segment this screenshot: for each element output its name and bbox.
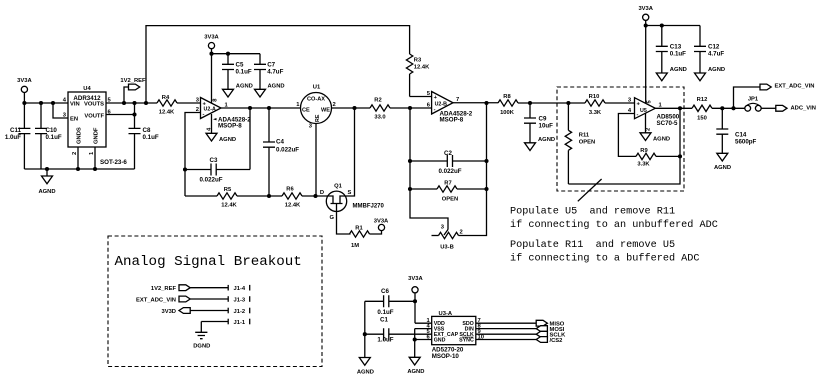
wire C6 to C1 vertical bbox=[364, 301, 366, 334]
node /CS2 flag bbox=[536, 337, 562, 344]
svg-text:ADC_VIN: ADC_VIN bbox=[791, 105, 816, 111]
ground DGND bbox=[193, 322, 210, 350]
svg-text:8: 8 bbox=[212, 98, 218, 102]
wire R6 to Q1 drain bbox=[302, 195, 328, 197]
wire to AGND (C1/C6) bbox=[364, 334, 366, 357]
svg-text:OPEN: OPEN bbox=[442, 197, 458, 203]
junction R7/C2 right bbox=[485, 160, 488, 163]
svg-text:CE: CE bbox=[302, 108, 310, 114]
wire top bus to R3 bbox=[146, 26, 410, 103]
svg-text:VOUTF: VOUTF bbox=[84, 114, 104, 120]
note text populate U5 bbox=[510, 206, 718, 265]
node SCLK flag bbox=[536, 331, 566, 338]
ground AGND (U5) bbox=[640, 133, 670, 143]
svg-text:AGND: AGND bbox=[407, 369, 424, 375]
svg-text:R1: R1 bbox=[355, 226, 363, 232]
node ADC_VIN flag bbox=[776, 105, 816, 111]
svg-text:VIN: VIN bbox=[70, 102, 80, 108]
svg-text:C8: C8 bbox=[143, 127, 151, 134]
wire SCLK bbox=[476, 333, 536, 335]
capacitor C14 bbox=[716, 108, 756, 153]
junction U1 RE drop bbox=[314, 195, 317, 198]
svg-text:GNDS: GNDS bbox=[77, 127, 83, 144]
wire R3 to U2-B pin5 bbox=[410, 96, 432, 98]
svg-text:RE: RE bbox=[315, 114, 321, 122]
power 3V3A (Q1 gate) bbox=[374, 219, 389, 231]
wire U2-A output bbox=[221, 107, 301, 109]
svg-text:2: 2 bbox=[460, 230, 463, 236]
svg-text:G: G bbox=[329, 215, 334, 221]
wire U5 pin4 feedback bbox=[618, 114, 636, 157]
junction EXT branch tap bbox=[732, 107, 735, 110]
op-amp U5 AD8500 bbox=[628, 98, 680, 131]
junction ground row dots bbox=[77, 168, 80, 171]
svg-text:R3: R3 bbox=[414, 58, 422, 64]
leader line to note bbox=[578, 179, 602, 201]
svg-text:J1-1: J1-1 bbox=[234, 320, 246, 326]
ground AGND (C9) bbox=[525, 137, 556, 151]
resistor R5 bbox=[185, 187, 238, 209]
wire net 3V3A VIN row bbox=[24, 102, 68, 104]
svg-text:AGND: AGND bbox=[268, 84, 285, 90]
wire supply cap row bbox=[646, 25, 700, 27]
junction C8 tap bbox=[133, 102, 136, 105]
junction C6 tap bbox=[414, 300, 417, 303]
wire JP1 to ADC_VIN bbox=[761, 107, 776, 109]
svg-text:R11: R11 bbox=[579, 133, 590, 139]
capacitor C3 bbox=[185, 157, 250, 184]
sensor U1 CO-AX bbox=[296, 85, 335, 130]
junction C4 top bbox=[268, 107, 271, 110]
svg-text:5: 5 bbox=[647, 100, 653, 104]
wire GNDS pin bbox=[77, 147, 79, 169]
junction C14 tap bbox=[721, 107, 724, 110]
svg-text:C14: C14 bbox=[735, 132, 747, 139]
capacitor C2 bbox=[410, 150, 487, 175]
svg-text:12.4K: 12.4K bbox=[285, 203, 301, 209]
junction C1 left bbox=[363, 333, 366, 336]
power 3V3A (U5 supply) bbox=[638, 6, 653, 103]
svg-text:-: - bbox=[434, 107, 436, 113]
op-amp U2-A ADA4528-2 bbox=[196, 98, 251, 132]
junction C2 left / R7 left bbox=[409, 160, 412, 163]
wire C3 to output node bbox=[249, 108, 251, 170]
svg-text:U2-A: U2-A bbox=[204, 107, 217, 113]
svg-text:C10: C10 bbox=[46, 127, 58, 134]
svg-text:AGND: AGND bbox=[670, 67, 687, 73]
svg-text:Q1: Q1 bbox=[334, 184, 343, 190]
junction output/feedback bbox=[485, 102, 488, 105]
resistor R10 bbox=[568, 94, 634, 116]
wire feedback left vertical bbox=[410, 108, 448, 230]
svg-text:3V3A: 3V3A bbox=[408, 276, 423, 282]
wire SYNC to /CS2 bbox=[476, 339, 536, 341]
svg-text:R10: R10 bbox=[589, 94, 600, 100]
ground AGND (C14) bbox=[714, 153, 731, 171]
wire U2-A pin2 feedback bbox=[185, 113, 201, 197]
svg-text:2: 2 bbox=[72, 152, 78, 155]
wire VSS/GND to AGND bbox=[414, 329, 416, 358]
junction C10 tap bbox=[40, 102, 43, 105]
svg-text:12.4K: 12.4K bbox=[159, 110, 175, 116]
svg-text:1M: 1M bbox=[351, 243, 359, 249]
wire R1 to 3V3A bbox=[370, 231, 382, 234]
svg-text:1.0uF: 1.0uF bbox=[377, 336, 393, 343]
wire R12 to JP1 bbox=[712, 107, 745, 109]
svg-text:3.3K: 3.3K bbox=[589, 110, 602, 116]
svg-text:0.1uF: 0.1uF bbox=[377, 309, 393, 316]
svg-text:3V3D: 3V3D bbox=[161, 309, 176, 315]
resistor R1 bbox=[350, 226, 370, 250]
svg-text:2: 2 bbox=[646, 128, 652, 131]
resistor R3 bbox=[406, 54, 430, 97]
capacitor C13 bbox=[656, 26, 686, 74]
svg-text:3V3A: 3V3A bbox=[638, 6, 653, 12]
junction Q1 source tap bbox=[353, 107, 356, 110]
svg-text:33.0: 33.0 bbox=[374, 115, 385, 121]
svg-text:0.1uF: 0.1uF bbox=[236, 69, 252, 76]
svg-text:AGND: AGND bbox=[357, 370, 374, 376]
junction U2-B pin6 feedback tap bbox=[409, 107, 412, 110]
junction C3 left bbox=[184, 168, 187, 171]
svg-text:GNDF: GNDF bbox=[94, 127, 100, 144]
svg-text:Populate R11 and remove U5: Populate R11 and remove U5 bbox=[510, 239, 675, 251]
svg-text:C1: C1 bbox=[380, 317, 388, 324]
svg-text:U3-A: U3-A bbox=[439, 311, 453, 317]
node MISO flag bbox=[536, 320, 565, 327]
junction EN tap bbox=[52, 102, 55, 105]
resistor R11 bbox=[565, 103, 595, 184]
capacitor C8 bbox=[129, 103, 159, 169]
junction output/bypass bbox=[679, 107, 682, 110]
wire U1 RE pin down bbox=[315, 124, 317, 197]
ground AGND (C13) bbox=[656, 67, 687, 81]
svg-text:10uF: 10uF bbox=[539, 123, 554, 130]
wire U2-A gnd pin bbox=[211, 114, 213, 133]
wire R11 bypass bottom bbox=[568, 108, 680, 184]
junction supply caps row bbox=[644, 24, 647, 27]
svg-text:3V3A: 3V3A bbox=[17, 78, 32, 84]
ground AGND (C1) bbox=[357, 358, 374, 376]
svg-text:AGND: AGND bbox=[38, 189, 55, 195]
ground AGND (C12) bbox=[695, 67, 726, 81]
svg-text:R6: R6 bbox=[286, 187, 294, 193]
wire U5 gnd pin bbox=[645, 113, 647, 133]
resistor R12 bbox=[692, 97, 712, 122]
svg-text:MMBFJ270: MMBFJ270 bbox=[353, 204, 385, 210]
svg-text:S: S bbox=[348, 190, 352, 196]
svg-text:AGND: AGND bbox=[708, 67, 725, 73]
power 3V3A (U3 supply) bbox=[408, 276, 423, 323]
resistor R9 bbox=[636, 148, 680, 168]
node 1V2_REF flag bbox=[120, 78, 146, 103]
junction 1V2_REF tap bbox=[123, 102, 126, 105]
wire R4 to U2-A pin3 bbox=[177, 102, 201, 104]
svg-text:0.022uF: 0.022uF bbox=[199, 177, 222, 184]
svg-text:J1-2: J1-2 bbox=[234, 309, 246, 315]
capacitor C11 bbox=[5, 103, 31, 169]
capacitor C5 bbox=[222, 54, 252, 90]
svg-text:EXT_ADC_VIN: EXT_ADC_VIN bbox=[775, 84, 815, 90]
svg-text:R7: R7 bbox=[444, 181, 451, 187]
IC U3-A AD5270-20 bbox=[426, 311, 483, 360]
node 1V2_REF row bbox=[151, 285, 250, 292]
wire DIN to MOSI bbox=[476, 328, 536, 330]
svg-text:C5: C5 bbox=[236, 62, 244, 69]
IC U4 ADR3412 bbox=[63, 86, 128, 166]
svg-text:MSOP-8: MSOP-8 bbox=[218, 122, 242, 129]
wire U2-B output bbox=[453, 102, 498, 104]
capacitor C12 bbox=[694, 26, 724, 74]
svg-text:-: - bbox=[637, 112, 639, 118]
node 3V3D row bbox=[161, 308, 249, 315]
svg-text:AGND: AGND bbox=[236, 84, 253, 90]
svg-text:CO-AX: CO-AX bbox=[307, 97, 325, 103]
svg-text:1: 1 bbox=[89, 151, 95, 155]
svg-text:1: 1 bbox=[296, 102, 300, 108]
potentiometer U3-B bbox=[432, 225, 463, 251]
wire GND pin bbox=[415, 339, 432, 341]
svg-text:100K: 100K bbox=[500, 110, 515, 116]
svg-text:DGND: DGND bbox=[193, 344, 210, 350]
svg-text:1: 1 bbox=[659, 103, 663, 109]
svg-text:C7: C7 bbox=[267, 62, 275, 69]
svg-text:3: 3 bbox=[441, 225, 445, 231]
capacitor C6 bbox=[365, 288, 415, 316]
svg-text:AGND: AGND bbox=[653, 137, 670, 143]
svg-text:2: 2 bbox=[333, 102, 336, 108]
dashed box analog signal breakout bbox=[108, 236, 322, 367]
junction GND row bbox=[413, 338, 416, 341]
capacitor C4 bbox=[263, 108, 299, 196]
wire EXT_ADC_VIN branch bbox=[734, 87, 761, 108]
capacitor C9 bbox=[524, 103, 553, 143]
resistor R8 bbox=[498, 94, 518, 116]
svg-text:4.7uF: 4.7uF bbox=[708, 51, 724, 58]
svg-text:J1-3: J1-3 bbox=[234, 297, 246, 303]
junction R9 right bbox=[679, 155, 682, 158]
junction C13 tap bbox=[660, 24, 663, 27]
ground AGND (U3-A) bbox=[407, 357, 424, 375]
svg-text:R2: R2 bbox=[374, 98, 381, 104]
svg-text:C9: C9 bbox=[539, 116, 547, 123]
wire R2 to U2-B pin6 bbox=[390, 107, 432, 109]
svg-text:C12: C12 bbox=[708, 44, 720, 51]
svg-text:AGND: AGND bbox=[714, 165, 731, 171]
svg-text:3.3K: 3.3K bbox=[637, 162, 650, 168]
wire U5 output bbox=[655, 107, 692, 109]
wire U1 WE to R2 bbox=[332, 107, 371, 109]
svg-text:R8: R8 bbox=[503, 94, 511, 100]
wire R5 right to C4 node bbox=[237, 195, 282, 197]
node J1-1 row bbox=[201, 319, 249, 326]
svg-text:MSOP-8: MSOP-8 bbox=[440, 116, 464, 123]
capacitor C10 bbox=[35, 103, 62, 169]
svg-text:U3-B: U3-B bbox=[440, 245, 454, 251]
svg-text:GND: GND bbox=[434, 338, 446, 344]
junction C9 tap bbox=[529, 102, 532, 105]
jumper JP1 bbox=[745, 97, 761, 112]
svg-text:U1: U1 bbox=[313, 85, 321, 91]
svg-text:1.0uF: 1.0uF bbox=[5, 134, 21, 141]
svg-text:4.7uF: 4.7uF bbox=[267, 69, 283, 76]
svg-text:C6: C6 bbox=[381, 288, 389, 295]
svg-text:if connecting to an unbuffered: if connecting to an unbuffered ADC bbox=[510, 219, 718, 231]
svg-text:U4: U4 bbox=[83, 86, 91, 92]
svg-text:R4: R4 bbox=[162, 95, 170, 101]
svg-text:5600pF: 5600pF bbox=[735, 139, 757, 146]
power 3V3A (left) bbox=[17, 78, 32, 103]
junction R11 tap bbox=[567, 102, 570, 105]
svg-text:Populate U5 and remove R11: Populate U5 and remove R11 bbox=[510, 206, 675, 218]
svg-text:if connecting to a buffered AD: if connecting to a buffered ADC bbox=[510, 253, 700, 265]
svg-text:SC70-5: SC70-5 bbox=[657, 120, 679, 127]
svg-text:0.1uF: 0.1uF bbox=[670, 51, 686, 58]
svg-text:SYNC: SYNC bbox=[459, 338, 474, 344]
svg-text:0.022uF: 0.022uF bbox=[438, 168, 461, 175]
svg-text:1V2_REF: 1V2_REF bbox=[120, 78, 146, 84]
transistor Q1 MMBFJ270 bbox=[320, 184, 385, 222]
junction C3/output bbox=[249, 107, 252, 110]
wire GNDF pin bbox=[94, 147, 96, 169]
wire SDO to MISO bbox=[476, 322, 536, 324]
svg-text:3V3A: 3V3A bbox=[204, 35, 219, 41]
svg-text:U2-B: U2-B bbox=[435, 101, 448, 107]
svg-text:C4: C4 bbox=[276, 139, 284, 146]
dashed box U5/R11 option bbox=[557, 87, 684, 191]
wire EN bbox=[53, 103, 68, 118]
ground AGND (C5) bbox=[223, 84, 253, 98]
wire supply cap row bbox=[212, 53, 261, 55]
svg-text:/CS2: /CS2 bbox=[550, 338, 563, 344]
wire VDD pin bbox=[415, 322, 432, 324]
power 3V3A (U2-A supply) bbox=[204, 35, 219, 104]
resistor R6 bbox=[282, 187, 302, 209]
wire VSS pin bbox=[415, 328, 432, 330]
svg-text:VOUTS: VOUTS bbox=[84, 102, 104, 108]
svg-text:C2: C2 bbox=[444, 150, 452, 157]
svg-text:R5: R5 bbox=[224, 187, 232, 193]
svg-text:R12: R12 bbox=[697, 97, 708, 103]
svg-text:C13: C13 bbox=[670, 44, 682, 51]
ground AGND (U2-A) bbox=[206, 133, 236, 143]
wire R8 to dashed box bbox=[518, 102, 568, 104]
wire VOUTF row bbox=[106, 114, 135, 116]
svg-text:SOT-23-6: SOT-23-6 bbox=[100, 159, 127, 166]
svg-text:12.4K: 12.4K bbox=[414, 65, 430, 71]
svg-text:C11: C11 bbox=[10, 127, 22, 134]
svg-text:R9: R9 bbox=[640, 148, 648, 154]
svg-text:AGND: AGND bbox=[219, 137, 236, 143]
junction C4 bottom bbox=[268, 195, 271, 198]
resistor R7 bbox=[410, 181, 487, 203]
wire Q1 source up bbox=[346, 108, 355, 196]
op-amp U2-B ADA4528-2 bbox=[427, 91, 473, 123]
svg-text:0.1uF: 0.1uF bbox=[46, 134, 62, 141]
svg-text:WE: WE bbox=[321, 108, 330, 114]
svg-text:1V2_REF: 1V2_REF bbox=[151, 286, 177, 292]
svg-text:150: 150 bbox=[697, 116, 707, 122]
wire ground row bbox=[24, 168, 134, 170]
wire pot wiper diagonal bbox=[444, 230, 448, 236]
svg-text:MSOP-10: MSOP-10 bbox=[432, 353, 460, 360]
resistor R4 bbox=[157, 95, 177, 116]
svg-text:3: 3 bbox=[309, 124, 313, 130]
node EXT_ADC_VIN flag bbox=[760, 84, 814, 90]
resistor R2 bbox=[370, 98, 390, 121]
wire Q1 gate bbox=[337, 211, 351, 234]
junction VOUTF/C8 bbox=[133, 113, 136, 116]
capacitor C7 bbox=[254, 54, 284, 90]
svg-text:C3: C3 bbox=[210, 157, 218, 164]
svg-text:JP1: JP1 bbox=[748, 97, 759, 103]
svg-text:OPEN: OPEN bbox=[579, 140, 595, 146]
node MOSI flag bbox=[536, 326, 565, 333]
capacitor C1 bbox=[365, 317, 432, 344]
ground AGND (U4) bbox=[38, 169, 55, 195]
svg-text:EXT_ADC_VIN: EXT_ADC_VIN bbox=[136, 297, 176, 303]
junction C5 tap bbox=[227, 52, 230, 55]
svg-text:3V3A: 3V3A bbox=[374, 219, 389, 225]
ground AGND (C7) bbox=[255, 84, 285, 98]
svg-text:D: D bbox=[320, 190, 324, 196]
svg-text:12.4K: 12.4K bbox=[221, 203, 237, 209]
svg-text:Analog Signal Breakout: Analog Signal Breakout bbox=[115, 254, 302, 270]
svg-text:EN: EN bbox=[70, 117, 78, 123]
svg-text:AGND: AGND bbox=[538, 137, 555, 143]
svg-text:0.022uF: 0.022uF bbox=[276, 147, 299, 154]
node EXT_ADC_VIN row bbox=[136, 296, 250, 303]
svg-text:0.1uF: 0.1uF bbox=[143, 134, 159, 141]
svg-text:J1-4: J1-4 bbox=[234, 286, 246, 292]
wire VOUTS row bbox=[106, 102, 157, 104]
junction supply/caps bbox=[210, 52, 213, 55]
wire pot pin2 to output vertical bbox=[459, 103, 487, 236]
junction C11 tap bbox=[23, 102, 26, 105]
junction top-bus tap bbox=[145, 102, 148, 105]
